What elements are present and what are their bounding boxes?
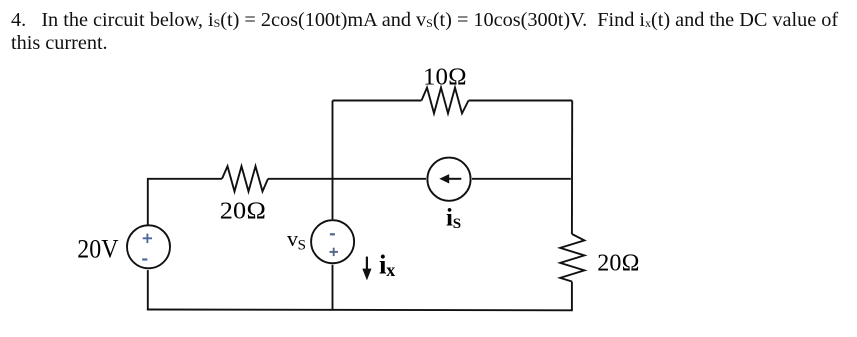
label ix (379, 250, 395, 280)
wire bottom horizontal (147, 309, 573, 312)
wire middle horizontal left segment (147, 178, 222, 180)
svg-text:S: S (298, 238, 306, 254)
svg-text:10Ω: 10Ω (423, 63, 467, 90)
wire middle vertical bottom segment (332, 265, 334, 311)
voltage source vs circle (311, 220, 354, 263)
resistor R2 10ohm horizontal zigzag (422, 88, 469, 114)
svg-text:20Ω: 20Ω (597, 250, 640, 277)
wire right vertical bottom segment (571, 282, 573, 311)
plus sign of 20V source (143, 234, 152, 244)
svg-text:20Ω: 20Ω (220, 198, 266, 225)
wire left vertical bottom segment (147, 270, 149, 310)
problem statement text (11, 9, 838, 54)
label is (446, 205, 461, 232)
svg-text:S: S (453, 216, 461, 232)
wire middle horizontal center segment (268, 178, 426, 180)
wire right vertical top segment (571, 101, 573, 235)
current source is circle (427, 158, 470, 201)
wire left vertical top segment (147, 179, 149, 225)
svg-text:v: v (287, 226, 298, 251)
svg-text:x: x (386, 260, 395, 280)
voltage source 20V circle (127, 225, 170, 268)
minus sign of 20V source (142, 258, 147, 260)
arrow inside current source pointing left (439, 174, 461, 183)
minus sign of vs source (330, 233, 335, 235)
wire middle horizontal right segment (472, 178, 571, 180)
wire middle vertical top segment (332, 101, 334, 220)
resistor R1 20ohm horizontal zigzag (222, 166, 268, 191)
wire top horizontal left segment (333, 100, 422, 102)
plus sign of vs source (330, 248, 339, 256)
wire top horizontal right segment (469, 100, 573, 102)
resistor R3 20ohm vertical zigzag (560, 234, 584, 282)
current ix arrow (362, 257, 371, 281)
svg-text:20V: 20V (77, 235, 118, 264)
label vs (287, 226, 306, 253)
